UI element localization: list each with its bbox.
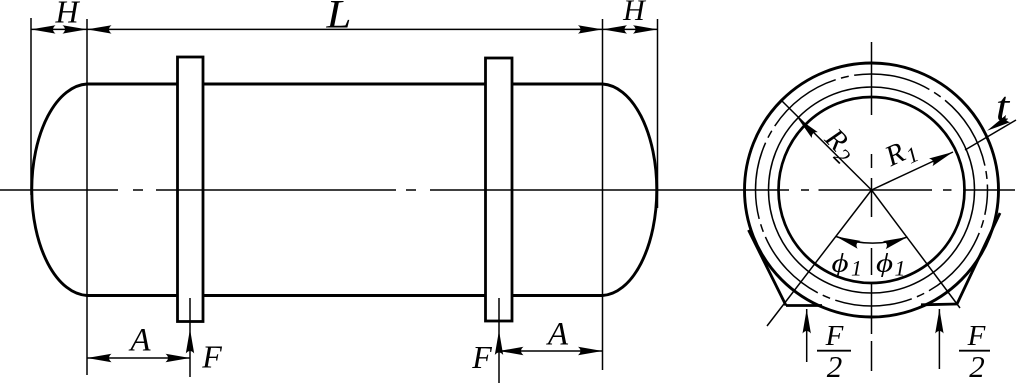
arrow left-A left bbox=[87, 354, 112, 362]
R2 radius line bbox=[782, 101, 872, 190]
top dimension line bbox=[31, 28, 658, 30]
right saddle support band bbox=[486, 58, 513, 321]
saddle left edge bbox=[749, 230, 787, 306]
arrow H-right outward left bbox=[603, 25, 628, 33]
label R2 rotated bbox=[815, 122, 863, 170]
extension line at right tangent x=602.5 bbox=[602, 19, 604, 370]
phi1 right radial line bbox=[872, 190, 961, 308]
F/2 right arrow bbox=[938, 309, 940, 369]
extension line at left head apex x=31 bbox=[30, 18, 32, 195]
right elliptical head bbox=[603, 84, 657, 296]
arrow R2 bbox=[795, 115, 818, 138]
arrow right-A right bbox=[578, 347, 603, 355]
saddle bottom right bbox=[921, 303, 957, 307]
svg-text:L: L bbox=[325, 0, 351, 37]
arrow arc left bbox=[835, 233, 861, 249]
svg-text:t: t bbox=[996, 83, 1011, 129]
svg-text:F: F bbox=[201, 339, 222, 375]
inner bore circle R1 bbox=[779, 97, 965, 283]
svg-text:1: 1 bbox=[895, 256, 906, 281]
left elliptical head bbox=[32, 84, 87, 296]
svg-text:A: A bbox=[546, 317, 569, 353]
cross-section vertical centerline bbox=[871, 42, 873, 371]
svg-text:F: F bbox=[825, 320, 844, 352]
svg-text:1: 1 bbox=[851, 256, 862, 281]
arrow H-right outward right bbox=[633, 25, 658, 33]
arrow left-A right bbox=[166, 354, 191, 362]
main horizontal centerline (dash-dot across both views) bbox=[0, 189, 1015, 191]
right A dimension line bbox=[499, 350, 603, 352]
svg-text:R2: R2 bbox=[815, 122, 863, 170]
label R1 rotated bbox=[879, 131, 922, 177]
cylinder shell top edge bbox=[87, 83, 603, 86]
dash-dot mean circle bbox=[756, 74, 988, 306]
phi1 angle arc bbox=[836, 237, 908, 244]
saddle bottom left bbox=[786, 304, 822, 307]
arrow right F up bbox=[495, 331, 503, 356]
svg-text:F: F bbox=[471, 339, 492, 375]
left A dimension line bbox=[87, 357, 190, 359]
arrow t bbox=[985, 115, 1010, 135]
left force line F bbox=[189, 298, 191, 377]
saddle right edge bbox=[957, 213, 1000, 304]
arrow L right bbox=[578, 25, 603, 33]
arrow H-left outward right bbox=[63, 25, 88, 33]
left saddle support band bbox=[178, 57, 204, 322]
F/2 left arrow bbox=[806, 309, 808, 362]
cylinder shell bottom edge bbox=[87, 294, 603, 297]
arrow left F up bbox=[186, 329, 194, 354]
R1 radius line bbox=[872, 152, 954, 190]
extension line at right head apex x=657.5 bbox=[657, 19, 659, 208]
arrow right-A left bbox=[499, 347, 524, 355]
arrow R1 bbox=[929, 148, 955, 166]
svg-text:2: 2 bbox=[827, 349, 843, 384]
svg-text:2: 2 bbox=[969, 349, 985, 384]
arrow L left bbox=[87, 25, 112, 33]
svg-text:ϕ: ϕ bbox=[876, 249, 893, 278]
svg-text:F: F bbox=[967, 320, 986, 352]
extension line at left tangent x=87 bbox=[86, 19, 88, 375]
svg-text:R1: R1 bbox=[879, 131, 922, 177]
outer shell circle bbox=[745, 63, 999, 317]
svg-text:A: A bbox=[128, 323, 151, 359]
phi1 left radial line bbox=[767, 190, 872, 326]
inner thin circle R2 bbox=[769, 87, 975, 293]
svg-text:H: H bbox=[54, 0, 80, 30]
arrow H-left outward left bbox=[31, 25, 56, 33]
svg-text:ϕ: ϕ bbox=[831, 249, 848, 278]
arrow arc right bbox=[883, 233, 909, 249]
right force line F bbox=[498, 298, 500, 383]
t leader line bbox=[965, 120, 1016, 150]
svg-text:H: H bbox=[622, 0, 647, 27]
